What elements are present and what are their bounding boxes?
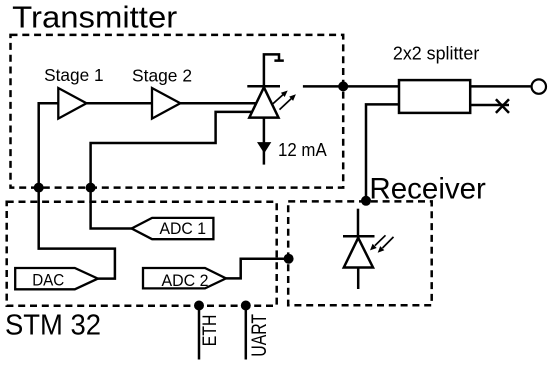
wire optical output to splitter xyxy=(303,85,399,88)
current direction arrow 12 mA xyxy=(257,142,271,153)
termination X xyxy=(496,99,509,113)
svg-text:Transmitter: Transmitter xyxy=(12,0,177,34)
amplifier Stage 2 xyxy=(152,88,180,119)
svg-text:ETH: ETH xyxy=(200,315,221,347)
block DAC xyxy=(15,268,98,289)
svg-text:12 mA: 12 mA xyxy=(278,140,327,160)
svg-text:STM 32: STM 32 xyxy=(5,309,101,341)
diode triangle xyxy=(249,87,278,117)
cathode bar xyxy=(343,235,375,238)
node junction dot ETH xyxy=(194,301,204,311)
wire ADC 2 to receiver xyxy=(226,259,289,279)
node junction dot on receiver left border xyxy=(284,254,294,264)
STM 32 box xyxy=(7,202,277,306)
wire ETH port xyxy=(198,306,201,360)
wire splitter bottom output terminated xyxy=(470,104,509,107)
svg-text:Stage 1: Stage 1 xyxy=(44,65,104,85)
Receiver box xyxy=(288,201,432,305)
incoming light arrow 1 xyxy=(375,235,386,245)
svg-text:ADC 2: ADC 2 xyxy=(162,271,209,290)
wire DAC output to Stage 1 input xyxy=(39,103,115,278)
wire Stage 2 output to laser diode xyxy=(180,102,256,105)
node junction dot on receiver top border xyxy=(361,196,371,206)
block ADC 2 xyxy=(143,268,226,288)
laser diode D1 xyxy=(247,54,296,117)
wire splitter bottom-left port down to receiver xyxy=(366,104,399,199)
node junction dot on transmitter border (DAC wire) xyxy=(34,183,44,193)
splitter box xyxy=(399,80,470,113)
svg-text:DAC: DAC xyxy=(32,271,64,290)
Transmitter box xyxy=(11,35,344,188)
node junction dot UART xyxy=(241,301,251,311)
wire splitter top output xyxy=(470,85,531,88)
wire photodiode anode xyxy=(357,209,360,237)
anode lead with hook xyxy=(264,54,284,86)
wire laser monitor to ADC 1 junction xyxy=(91,112,253,229)
light emission arrow 1 xyxy=(272,95,283,105)
connector open circle xyxy=(532,79,546,93)
svg-text:ADC 1: ADC 1 xyxy=(160,219,207,238)
node junction dot on transmitter right border xyxy=(338,81,348,91)
svg-text:UART: UART xyxy=(247,314,271,357)
svg-text:2x2 splitter: 2x2 splitter xyxy=(393,43,479,64)
wire photodiode cathode xyxy=(357,268,360,290)
node junction dot on transmitter border (ADC1 wire) xyxy=(86,183,96,193)
svg-text:Stage 2: Stage 2 xyxy=(132,66,192,86)
incoming light arrow 2 xyxy=(383,237,394,248)
wire Stage 1 output to Stage 2 input xyxy=(87,102,153,105)
photodiode D2 xyxy=(343,209,394,289)
light emission arrow 2 xyxy=(280,98,292,109)
diode triangle xyxy=(344,238,373,268)
amplifier Stage 1 xyxy=(58,88,86,119)
cathode bar xyxy=(247,85,280,88)
block ADC 1 xyxy=(132,218,214,239)
wire UART port xyxy=(245,306,248,360)
wire laser cathode down xyxy=(263,118,266,165)
